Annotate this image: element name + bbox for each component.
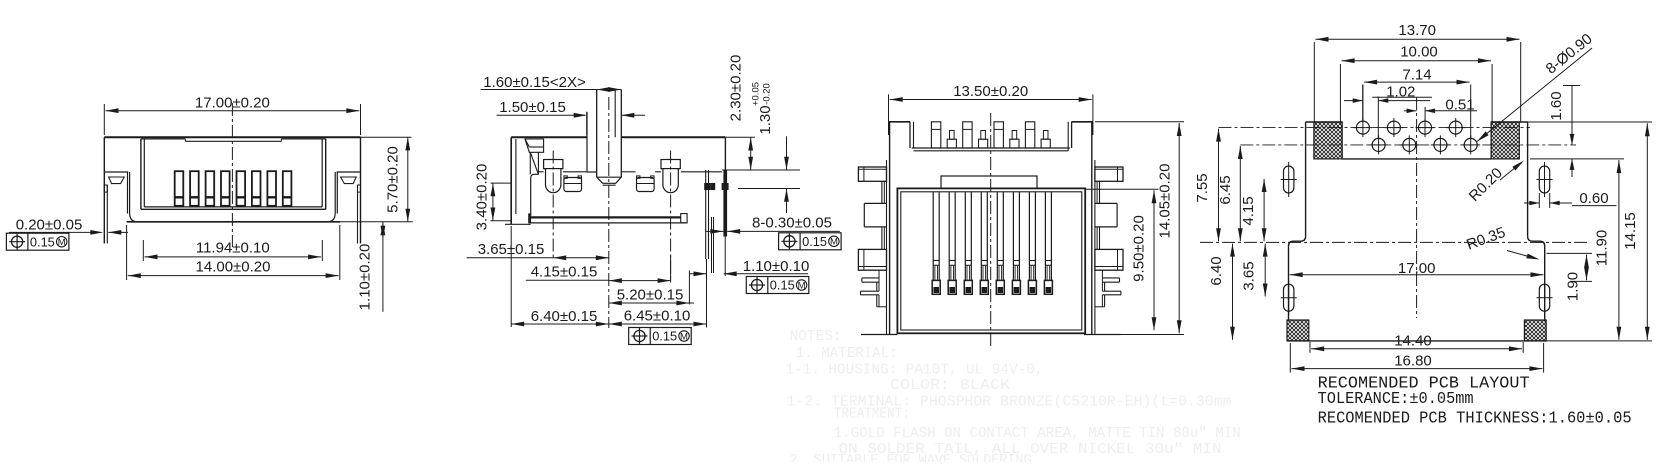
svg-text:1.60±0.15<2X>: 1.60±0.15<2X>: [483, 74, 586, 91]
svg-text:0.15: 0.15: [30, 234, 55, 249]
svg-text:11.90: 11.90: [1594, 230, 1611, 266]
svg-text:13.50±0.20: 13.50±0.20: [953, 83, 1028, 100]
svg-text:M: M: [830, 237, 838, 248]
svg-text:1.50±0.15: 1.50±0.15: [499, 99, 566, 116]
svg-text:3.40±0.20: 3.40±0.20: [474, 164, 491, 231]
svg-text:1. MATERIAL:: 1. MATERIAL:: [796, 345, 898, 362]
svg-text:14.00±0.20: 14.00±0.20: [196, 259, 271, 276]
svg-text:1.60: 1.60: [1548, 91, 1565, 120]
svg-text:6.40: 6.40: [1208, 256, 1225, 285]
svg-text:6.45±0.10: 6.45±0.10: [624, 308, 691, 325]
svg-text:1.90: 1.90: [1565, 272, 1582, 301]
svg-text:COLOR: BLACK: COLOR: BLACK: [890, 377, 1010, 394]
svg-text:1.02: 1.02: [1386, 84, 1415, 101]
svg-text:3.65: 3.65: [1241, 261, 1258, 290]
svg-text:TREATMENT:: TREATMENT:: [834, 406, 910, 423]
svg-text:1.GOLD FLASH ON CONTACT AREA,: 1.GOLD FLASH ON CONTACT AREA, MATTE TIN …: [834, 425, 1241, 442]
svg-text:16.80: 16.80: [1394, 353, 1432, 370]
svg-text:M: M: [798, 280, 806, 291]
svg-text:5.70±0.20: 5.70±0.20: [385, 146, 402, 213]
svg-text:14.05±0.20: 14.05±0.20: [1157, 164, 1174, 239]
svg-text:-0.20: -0.20: [762, 83, 773, 105]
svg-text:1.30: 1.30: [757, 105, 774, 134]
svg-text:1-1. HOUSING: PA10T, UL 94V-0,: 1-1. HOUSING: PA10T, UL 94V-0,: [785, 362, 1043, 379]
svg-text:0.20±0.05: 0.20±0.05: [16, 217, 83, 234]
svg-text:14.15: 14.15: [1622, 212, 1639, 250]
svg-text:M: M: [680, 331, 688, 342]
svg-text:+0.05: +0.05: [751, 82, 762, 106]
svg-text:RECOMENDED PCB THICKNESS:1.60±: RECOMENDED PCB THICKNESS:1.60±0.05: [1318, 408, 1632, 427]
svg-text:6.45: 6.45: [1217, 175, 1234, 204]
svg-text:1.10±0.20: 1.10±0.20: [357, 244, 374, 311]
svg-text:7.14: 7.14: [1402, 67, 1431, 84]
svg-text:7.55: 7.55: [1194, 173, 1211, 202]
svg-text:NOTES:: NOTES:: [790, 328, 842, 345]
svg-text:5.20±0.15: 5.20±0.15: [617, 287, 684, 304]
svg-text:0.60: 0.60: [1579, 190, 1608, 207]
svg-text:2.30±0.20: 2.30±0.20: [728, 55, 745, 122]
svg-text:0.15: 0.15: [770, 278, 795, 293]
svg-text:1.10±0.10: 1.10±0.10: [743, 258, 810, 275]
svg-text:11.94±0.10: 11.94±0.10: [196, 240, 270, 257]
svg-text:TOLERANCE:±0.05mm: TOLERANCE:±0.05mm: [1318, 389, 1474, 408]
svg-text:4.15: 4.15: [1240, 196, 1257, 225]
svg-text:8-0.30±0.05: 8-0.30±0.05: [752, 215, 832, 232]
svg-text:4.15±0.15: 4.15±0.15: [531, 264, 598, 281]
svg-text:0.15: 0.15: [652, 329, 677, 344]
svg-text:14.40: 14.40: [1394, 333, 1432, 350]
svg-text:6.40±0.15: 6.40±0.15: [531, 308, 598, 325]
svg-text:9.50±0.20: 9.50±0.20: [1131, 215, 1148, 282]
svg-text:10.00: 10.00: [1400, 44, 1438, 61]
svg-text:2. SUITABLE FOR WAVE SOLDERING: 2. SUITABLE FOR WAVE SOLDERING.: [790, 452, 1040, 462]
svg-text:13.70: 13.70: [1398, 22, 1436, 39]
svg-text:0.15: 0.15: [802, 234, 827, 249]
svg-text:M: M: [58, 237, 66, 248]
